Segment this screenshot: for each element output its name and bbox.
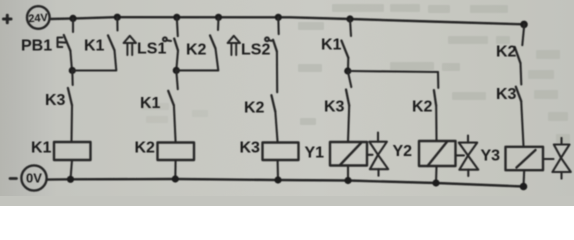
svg-text:K1: K1 [321,37,342,54]
wire: PB1 bottom to node A [70,51,72,71]
svg-text:LS1: LS1 [137,41,166,58]
junction dot: top rail / K1 seal-in branch [114,14,121,21]
svg-text:Y1: Y1 [305,145,325,162]
wire: coil K2 to bottom rail [174,160,176,179]
wire: coil Y2 to bottom rail [435,166,438,183]
svg-text:K2: K2 [412,99,433,116]
junction dot: bottom rail / Y2 coil [432,179,439,186]
svg-text:K2: K2 [496,44,517,61]
svg-text:K2: K2 [135,140,156,157]
contact K2 (rung 6) [496,24,524,63]
svg-text:PB1: PB1 [21,38,52,55]
contact K2 (rung 5) [412,72,438,116]
valve symbol for Y2 [456,136,479,177]
junction dot: top rail / LS2 branch [275,14,282,21]
wire: LS1 bottom to node B [176,51,178,71]
wire: K2 contact to solenoid coil Y2 [435,105,437,141]
svg-text:0V: 0V [26,171,42,186]
svg-text:Y3: Y3 [481,148,501,165]
svg-text:K1: K1 [31,140,52,157]
junction dot: bottom rail / K3 coil [274,176,281,183]
wire: K2 contact to K3 contact (rung 6) [519,63,522,84]
wire: coil K3 to bottom rail [277,160,279,180]
wire: coil Y1 to bottom rail [347,166,349,181]
wire: LS2 bottom to K2 contact (rung 3) [276,52,278,93]
junction dot: bottom rail / Y1 coil [344,177,351,184]
junction dot: bottom rail / K1 coil [67,176,74,183]
wire: K3 contact to solenoid coil Y1 [348,106,349,143]
valve symbol for Y1 [367,133,388,176]
svg-text:K3: K3 [240,140,261,157]
svg-text:LS2: LS2 [241,42,270,59]
wire: K3 contact to solenoid coil Y3 [521,101,523,146]
junction dot: top rail / LS1 branch [173,14,180,21]
contact K2 (NO seal-in, rung 2) [186,17,219,58]
solenoid coil Y1 [305,142,368,166]
pushbutton PB1, NO contact with manual actuator [21,18,73,54]
wire: coil Y3 to bottom rail end [522,170,525,186]
contact K3 (rung 4) [324,71,351,116]
supply node 0V [21,165,46,190]
junction dot: bottom rail end / Y3 coil [520,183,528,191]
wire: K3 contact to coil K1 [70,105,73,142]
contact K3 (rung 6) [496,86,521,103]
svg-text:24V: 24V [28,12,49,25]
svg-text:K3: K3 [45,92,66,109]
svg-text:K3: K3 [496,86,517,103]
valve symbol for Y3 [543,138,571,179]
contact K1 (NO seal-in, rung 1) [84,17,118,54]
wire: coil K1 to bottom rail [71,160,73,179]
contact K1 (rung 2) [140,70,178,112]
supply node 24V [27,6,50,29]
positive supply terminal + [4,15,12,23]
junction dot: top rail end / K2 rung-6 branch [520,21,528,29]
negative supply terminal - [10,177,17,180]
junction dot: top rail / PB1 branch [69,15,76,22]
limit switch LS1 (NO contact with roller and up-arrow) [124,17,178,57]
solenoid coil Y2 [393,141,456,166]
wire: K2 contact to node B [176,49,218,71]
wire: K2 contact to coil K3 [275,111,277,142]
relay coil K1 [31,140,91,161]
wire: K1 contact to node A [72,50,116,70]
wire: node C to K2 branch (rung 5) [348,71,438,72]
node B junction dot (rung 2 parallel join) [173,67,180,74]
top rail wire (+24V bus) [50,17,524,24]
svg-text:K2: K2 [244,100,265,117]
solenoid coil Y3 [481,147,544,170]
contact K1 (rung 4) [321,19,351,58]
relay coil K2 [135,140,195,161]
junction dot: top rail / K2 seal-in branch [215,14,222,21]
svg-text:K2: K2 [186,42,207,59]
node C junction dot (rung 4/5 split) [344,67,351,74]
node A junction dot (rung 1 parallel join) [69,67,76,74]
wire: K1 contact to coil K2 [174,105,176,142]
wire: K1 contact to node C [347,58,349,71]
contact K2 (rung 3) [244,95,275,116]
junction dot: bottom rail / K2 coil [172,175,179,182]
svg-text:K1: K1 [140,95,161,112]
svg-text:K1: K1 [84,38,105,55]
bottom rail wire (0V bus) [47,179,524,187]
limit switch LS2 (NO contact with roller and up-arrow) [228,17,279,58]
junction dot: top rail / K1 rung-4 branch [346,15,353,22]
relay coil K3 [240,140,299,161]
svg-text:K3: K3 [324,99,345,116]
svg-text:Y2: Y2 [393,143,413,160]
contact K3 (rung 1 interlock) [45,71,73,110]
